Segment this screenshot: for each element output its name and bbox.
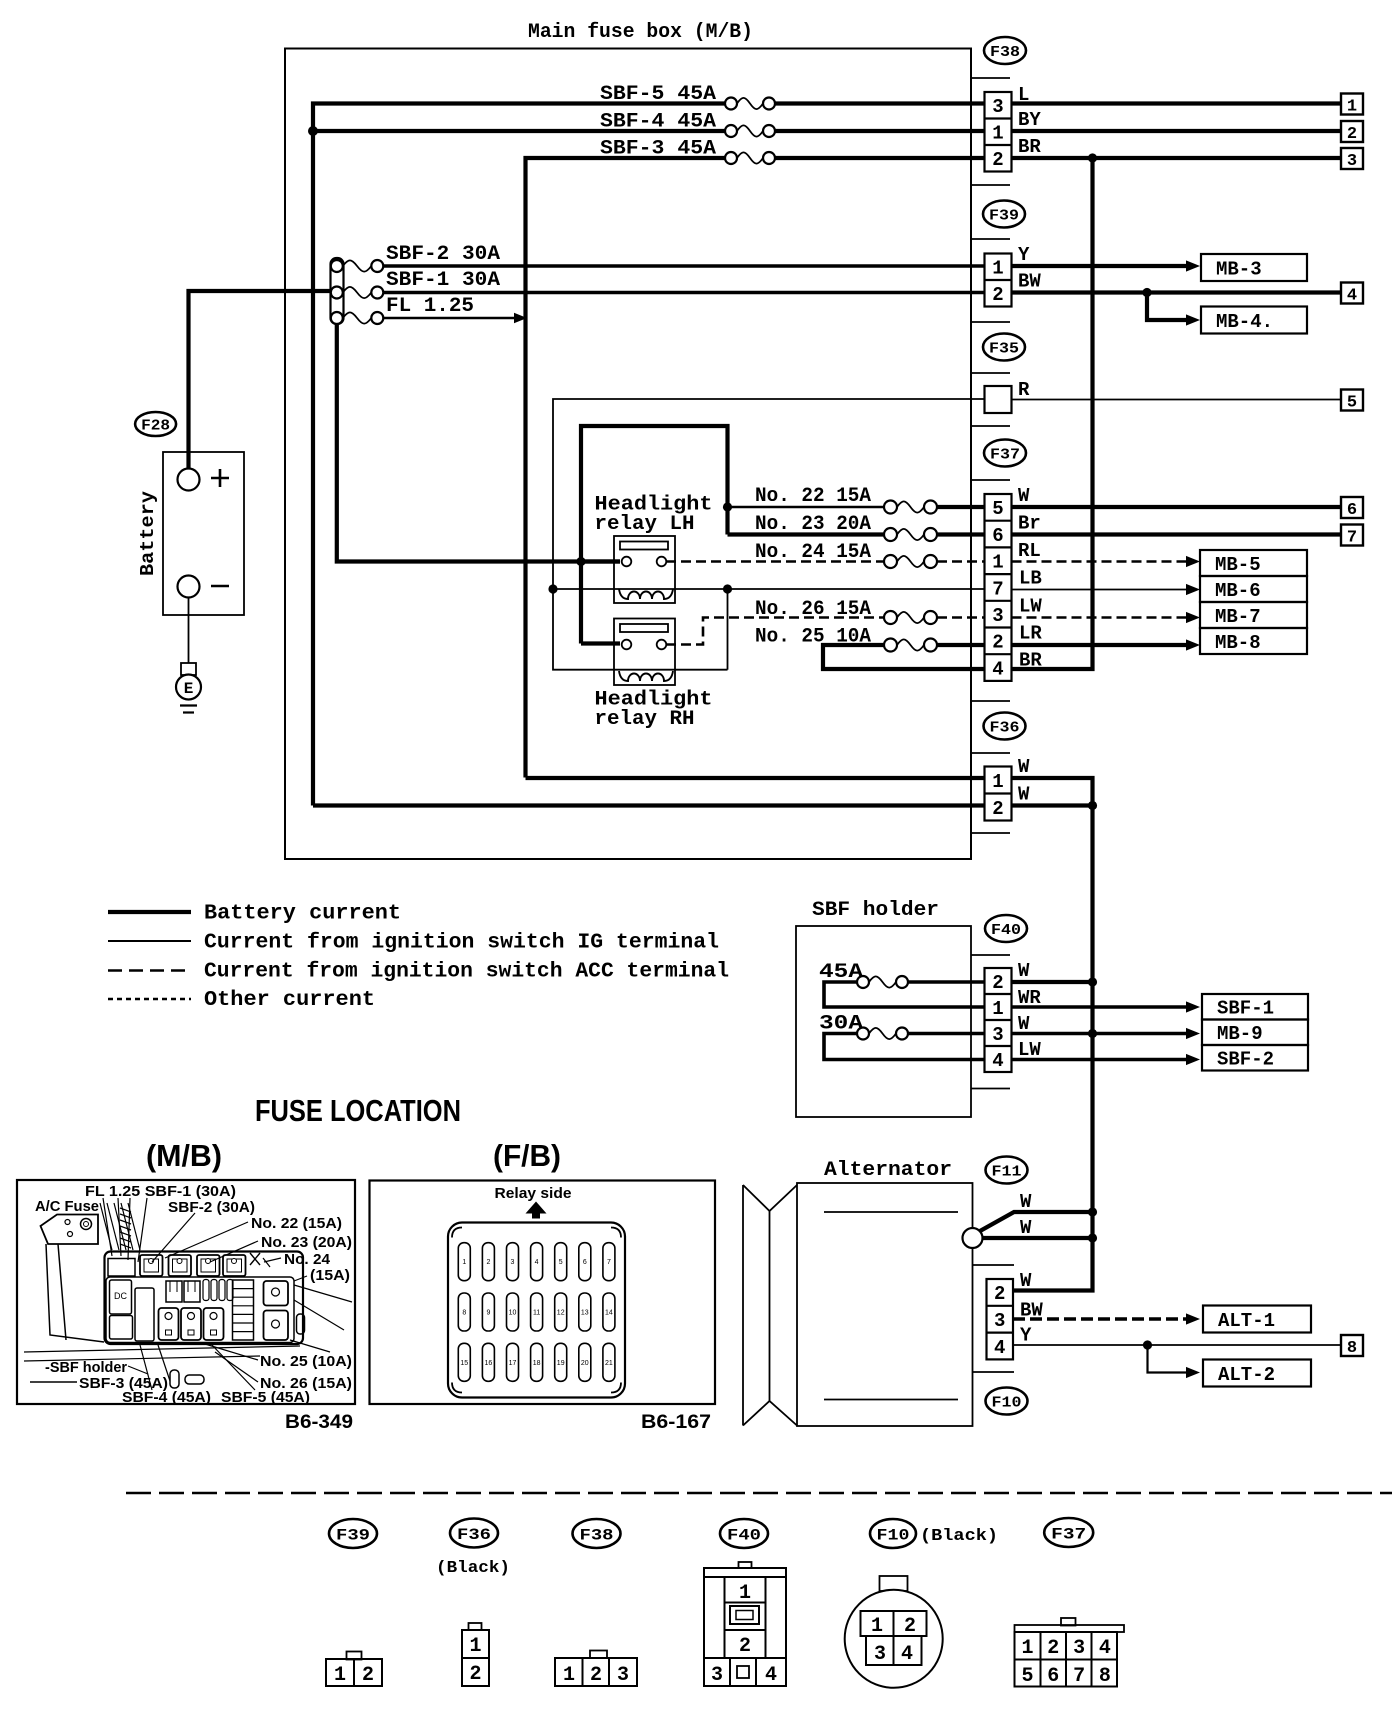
fuse No.23 xyxy=(897,529,924,540)
svg-text:4: 4 xyxy=(994,1337,1005,1359)
fuse FL 1.25 xyxy=(343,312,372,323)
svg-text:17: 17 xyxy=(509,1360,517,1367)
bottom F40 connector xyxy=(739,1562,752,1568)
svg-text:8: 8 xyxy=(1347,1339,1357,1358)
MB-3 box xyxy=(1201,254,1307,281)
connector F38 oval xyxy=(984,37,1026,64)
wire BW to terminal 4 xyxy=(1012,290,1342,294)
svg-text:2: 2 xyxy=(739,1635,751,1658)
wire W alternator second xyxy=(983,1236,1093,1240)
svg-text:F36: F36 xyxy=(457,1526,491,1544)
wire SBF-4 45A (battery) xyxy=(313,129,725,133)
svg-text:21: 21 xyxy=(605,1360,613,1367)
svg-text:SBF holder: SBF holder xyxy=(812,899,939,922)
relay LH coil xyxy=(619,589,673,599)
relay LH contacts xyxy=(622,557,632,567)
svg-text:2: 2 xyxy=(1047,1637,1059,1660)
svg-text:2: 2 xyxy=(904,1615,916,1638)
svg-text:MB-3: MB-3 xyxy=(1216,258,1262,280)
svg-text:Main fuse box (M/B): Main fuse box (M/B) xyxy=(528,21,753,44)
bottom F37 oval xyxy=(1044,1518,1093,1547)
svg-text:(Black): (Black) xyxy=(920,1527,998,1546)
wire relay feed U (battery) xyxy=(581,426,728,644)
bottom F10 oval xyxy=(870,1519,916,1548)
svg-text:1: 1 xyxy=(334,1664,346,1687)
svg-text:SBF-5 45A: SBF-5 45A xyxy=(600,83,716,106)
svg-text:3: 3 xyxy=(711,1664,723,1687)
svg-text:A/C Fuse: A/C Fuse xyxy=(35,1199,99,1215)
svg-text:SBF-4 (45A): SBF-4 (45A) xyxy=(122,1390,211,1406)
connector F39 oval xyxy=(983,201,1025,228)
connector F35 oval xyxy=(983,334,1025,361)
wire Br to terminal 7 xyxy=(1012,532,1342,536)
svg-text:BW: BW xyxy=(1018,271,1041,293)
svg-text:W: W xyxy=(1018,485,1030,507)
svg-text:F40: F40 xyxy=(727,1526,761,1544)
svg-text:(F/B): (F/B) xyxy=(493,1138,561,1173)
bottom F40 oval xyxy=(720,1519,768,1548)
svg-text:F10: F10 xyxy=(992,1394,1022,1411)
harness xyxy=(100,1203,112,1250)
svg-text:F37: F37 xyxy=(1051,1525,1086,1543)
svg-text:W: W xyxy=(1020,1217,1032,1239)
bottom F10 connector xyxy=(880,1576,908,1591)
connector F36 pin box pins 1,2 xyxy=(985,767,1012,821)
svg-text:16: 16 xyxy=(485,1360,493,1367)
svg-text:2: 2 xyxy=(992,149,1003,171)
A/C bracket xyxy=(41,1215,99,1245)
svg-text:No. 24: No. 24 xyxy=(284,1252,330,1268)
relay RH coil xyxy=(619,671,673,681)
svg-text:FL 1.25 SBF-1 (30A): FL 1.25 SBF-1 (30A) xyxy=(85,1184,236,1200)
terminal 4 xyxy=(1341,283,1363,304)
fuse No.26 xyxy=(897,612,924,623)
ground symbol xyxy=(180,704,197,706)
connector F35 pin box (R) xyxy=(985,386,1012,413)
svg-text:F35: F35 xyxy=(989,340,1019,357)
ALT-1 box xyxy=(1203,1306,1311,1333)
wire SBF-5 45A (battery) xyxy=(313,104,725,806)
wire W pin2 to vertical xyxy=(1012,980,1093,984)
svg-text:SBF-2: SBF-2 xyxy=(1217,1049,1274,1071)
svg-text:B6-349: B6-349 xyxy=(285,1412,353,1433)
svg-text:3: 3 xyxy=(1073,1637,1085,1660)
fuse No.25 xyxy=(897,639,924,650)
connector ticks on fuse box right edge xyxy=(971,77,1010,79)
svg-text:14: 14 xyxy=(605,1310,613,1317)
wire to relay LH contact xyxy=(581,559,620,563)
pointer lines xyxy=(103,1198,112,1256)
svg-text:MB-6: MB-6 xyxy=(1215,580,1261,602)
svg-text:SBF-4 45A: SBF-4 45A xyxy=(600,111,716,134)
svg-text:1: 1 xyxy=(469,1635,481,1658)
svg-text:SBF-2 30A: SBF-2 30A xyxy=(386,243,500,266)
terminal 7 xyxy=(1341,525,1363,546)
svg-text:No. 25 10A: No. 25 10A xyxy=(755,626,871,649)
terminal 3 xyxy=(1341,148,1363,169)
svg-text:2: 2 xyxy=(992,798,1003,820)
svg-text:7: 7 xyxy=(607,1259,611,1266)
svg-text:MB-7: MB-7 xyxy=(1215,606,1261,628)
svg-text:MB-9: MB-9 xyxy=(1217,1023,1263,1045)
svg-text:F40: F40 xyxy=(991,922,1021,939)
svg-text:LR: LR xyxy=(1019,623,1042,645)
svg-text:No. 22 (15A): No. 22 (15A) xyxy=(251,1216,342,1232)
wire BR to terminal 3 xyxy=(1012,156,1342,160)
bottom separator dashed line xyxy=(126,1492,1392,1495)
svg-text:1: 1 xyxy=(992,771,1003,793)
wire SBF-2 30A xyxy=(384,264,985,268)
svg-text:F39: F39 xyxy=(989,207,1019,224)
connector F40 pin box pins 2,1,3,4 xyxy=(985,968,1012,1072)
bottom F39 oval xyxy=(329,1519,377,1548)
svg-text:4: 4 xyxy=(992,1050,1003,1072)
svg-text:(15A): (15A) xyxy=(310,1268,350,1284)
wire R to terminal 5 xyxy=(1012,399,1342,401)
terminal 5 xyxy=(1341,390,1363,411)
svg-text:No. 23 20A: No. 23 20A xyxy=(755,513,871,536)
legend other current xyxy=(108,998,191,1001)
svg-text:Current from ignition switch A: Current from ignition switch ACC termina… xyxy=(204,961,729,984)
fuse No.22 xyxy=(897,501,924,512)
svg-text:1: 1 xyxy=(992,998,1003,1020)
terminal 2 xyxy=(1341,121,1363,142)
battery plus terminal xyxy=(178,469,200,491)
wire No.24 15A (ACC dashed) xyxy=(666,560,884,563)
svg-text:BR: BR xyxy=(1018,136,1041,158)
fuse SBF-2 30A xyxy=(343,260,372,271)
wire No.22 15A xyxy=(728,506,885,508)
svg-text:3: 3 xyxy=(992,605,1003,627)
svg-text:W: W xyxy=(1020,1191,1032,1213)
svg-text:Y: Y xyxy=(1020,1325,1032,1347)
svg-text:1: 1 xyxy=(563,1664,575,1687)
SBF fuse block bar xyxy=(331,258,344,324)
svg-text:LW: LW xyxy=(1019,596,1042,618)
svg-text:W: W xyxy=(1020,1270,1032,1292)
headlight relay RH box xyxy=(614,619,675,686)
connector F37 oval xyxy=(984,440,1026,467)
svg-text:F28: F28 xyxy=(141,417,170,434)
svg-text:2: 2 xyxy=(1347,125,1357,144)
wire LR to MB-8 xyxy=(1012,643,1187,647)
terminal 6 xyxy=(1341,497,1363,518)
svg-text:(Black): (Black) xyxy=(436,1559,510,1578)
legend battery current xyxy=(108,910,191,914)
fuse SBF-4 45A xyxy=(737,125,763,136)
svg-text:2: 2 xyxy=(992,972,1003,994)
SBF-1 MB-9 SBF-2 boxes xyxy=(1202,994,1308,1020)
svg-text:3: 3 xyxy=(874,1643,886,1666)
svg-text:SBF-2 (30A): SBF-2 (30A) xyxy=(168,1200,255,1216)
ALT-2 box xyxy=(1203,1360,1311,1387)
bottom F36 connector xyxy=(469,1623,482,1630)
svg-text:1: 1 xyxy=(992,123,1003,145)
svg-text:W: W xyxy=(1018,756,1030,778)
svg-text:1: 1 xyxy=(1347,98,1357,117)
ticks F11/F10 xyxy=(973,1264,1015,1266)
bottom F37 connector xyxy=(1061,1618,1076,1626)
svg-text:No. 25 (10A): No. 25 (10A) xyxy=(260,1354,352,1370)
terminal 8 xyxy=(1341,1335,1363,1356)
svg-text:18: 18 xyxy=(533,1360,541,1367)
wire No.26 15A (ACC dashed) xyxy=(666,618,884,645)
wire FL 1.25 xyxy=(384,317,516,320)
M/B fusebox body xyxy=(105,1252,304,1345)
svg-text:1: 1 xyxy=(992,258,1003,280)
svg-text:(M/B): (M/B) xyxy=(146,1138,222,1173)
svg-text:2: 2 xyxy=(992,284,1003,306)
wire BW to ALT-1 (dashed) xyxy=(1013,1317,1186,1320)
svg-text:13: 13 xyxy=(581,1310,589,1317)
svg-text:2: 2 xyxy=(994,1283,1005,1305)
svg-text:2: 2 xyxy=(992,632,1003,654)
svg-text:3: 3 xyxy=(511,1259,515,1266)
svg-text:relay LH: relay LH xyxy=(595,513,695,536)
alternator output terminal xyxy=(963,1228,983,1248)
F/B fuses xyxy=(458,1243,470,1281)
svg-text:6: 6 xyxy=(1047,1665,1059,1688)
fuse No.24 xyxy=(897,556,924,567)
bottom F38 connector xyxy=(590,1651,607,1659)
svg-text:2: 2 xyxy=(469,1663,481,1686)
svg-text:SBF-1: SBF-1 xyxy=(1217,998,1274,1020)
battery minus terminal xyxy=(178,576,200,598)
wire WR to SBF-1 xyxy=(1012,1005,1186,1009)
wire battery feed from battery plus xyxy=(189,291,331,469)
svg-text:4: 4 xyxy=(1099,1637,1111,1660)
svg-text:No. 22 15A: No. 22 15A xyxy=(755,485,871,508)
svg-text:10: 10 xyxy=(509,1310,517,1317)
MB-5 MB-6 MB-7 MB-8 boxes xyxy=(1200,550,1307,576)
fuse SBF-3 45A xyxy=(737,152,763,163)
main fuse box outline xyxy=(285,49,971,860)
svg-text:-SBF holder: -SBF holder xyxy=(45,1360,127,1376)
connector F39 pin box pins 1,2 xyxy=(985,254,1012,307)
wire No.25 10A xyxy=(823,645,985,669)
svg-text:L: L xyxy=(1018,84,1029,106)
fuse SBF-5 45A xyxy=(737,98,763,109)
svg-text:1: 1 xyxy=(1021,1637,1033,1660)
svg-text:5: 5 xyxy=(1347,394,1357,413)
wire SBF-1 30A xyxy=(384,291,985,295)
junction W xyxy=(1088,801,1097,810)
svg-text:1: 1 xyxy=(992,552,1003,574)
svg-text:6: 6 xyxy=(1347,501,1357,520)
svg-text:5: 5 xyxy=(1021,1665,1033,1688)
alternator pin box pins 2,3,4 xyxy=(987,1279,1014,1359)
terminal 1 xyxy=(1341,94,1363,115)
svg-text:4: 4 xyxy=(901,1643,913,1666)
svg-text:LB: LB xyxy=(1019,568,1042,590)
svg-text:F36: F36 xyxy=(990,719,1020,736)
wire L to terminal 1 xyxy=(1012,101,1342,105)
wire battery minus to ground xyxy=(188,598,190,664)
svg-text:BR: BR xyxy=(1019,650,1042,672)
svg-text:R: R xyxy=(1018,379,1030,401)
wire relay coil return (LB) xyxy=(553,588,985,590)
svg-text:W: W xyxy=(1018,960,1030,982)
svg-text:15: 15 xyxy=(460,1360,468,1367)
svg-text:3: 3 xyxy=(1347,152,1357,171)
svg-text:F10: F10 xyxy=(877,1526,910,1544)
svg-text:SBF-1 30A: SBF-1 30A xyxy=(386,269,500,292)
wire to relay RH contact xyxy=(581,641,620,645)
svg-text:SBF-5 (45A): SBF-5 (45A) xyxy=(221,1390,310,1406)
bottom F38 oval xyxy=(573,1519,621,1548)
M/B location box xyxy=(17,1180,355,1404)
connector F36 oval xyxy=(984,713,1026,740)
wire LB to MB-6 xyxy=(1012,589,1187,591)
connector F40 oval xyxy=(985,915,1027,942)
svg-text:3: 3 xyxy=(994,1310,1005,1332)
wire Y to terminal 8 xyxy=(1013,1344,1341,1346)
relay RH contacts xyxy=(622,640,632,650)
svg-text:7: 7 xyxy=(992,578,1003,600)
svg-text:F38: F38 xyxy=(990,44,1020,61)
svg-text:8: 8 xyxy=(462,1310,466,1317)
wire R to relay coils xyxy=(553,399,985,670)
svg-text:7: 7 xyxy=(1347,529,1357,548)
svg-text:F11: F11 xyxy=(992,1163,1022,1180)
alternator body xyxy=(797,1183,973,1426)
svg-text:11: 11 xyxy=(533,1310,540,1317)
svg-text:SBF-3 45A: SBF-3 45A xyxy=(600,138,716,161)
svg-text:Current from ignition switch I: Current from ignition switch IG terminal xyxy=(204,932,719,955)
relay side arrow xyxy=(526,1202,547,1219)
svg-text:4: 4 xyxy=(765,1664,777,1687)
svg-text:Br: Br xyxy=(1018,513,1041,535)
F/B inner fuse panel xyxy=(448,1223,625,1398)
svg-text:3: 3 xyxy=(992,96,1003,118)
svg-text:3: 3 xyxy=(617,1664,629,1687)
wire W pin2 from battery vertical xyxy=(313,803,985,807)
junction BW branch xyxy=(1142,288,1151,297)
svg-text:RL: RL xyxy=(1018,540,1041,562)
F28 oval xyxy=(135,412,176,436)
svg-text:Other current: Other current xyxy=(204,989,375,1012)
fuse SBF-1 30A xyxy=(343,287,372,298)
svg-text:Y: Y xyxy=(1018,244,1030,266)
wire RL to MB-5 (dashed) xyxy=(1012,560,1187,563)
svg-text:No. 23 (20A): No. 23 (20A) xyxy=(261,1235,352,1251)
wire W pin1 from SBF-3 line xyxy=(526,776,985,780)
svg-text:6: 6 xyxy=(992,525,1003,547)
wire W main vertical to alternator xyxy=(1013,806,1093,1291)
wire No.23 20A xyxy=(728,532,885,536)
svg-text:MB-4.: MB-4. xyxy=(1216,311,1273,333)
svg-text:B6-167: B6-167 xyxy=(641,1412,711,1433)
svg-text:Battery: Battery xyxy=(137,490,159,576)
connector F10 oval xyxy=(986,1388,1028,1415)
svg-text:DC: DC xyxy=(114,1291,127,1301)
svg-text:3: 3 xyxy=(992,1024,1003,1046)
ticks F40 xyxy=(971,954,1010,956)
wire W to terminal 6 xyxy=(1012,505,1342,509)
svg-text:4: 4 xyxy=(992,658,1003,680)
svg-text:ALT-2: ALT-2 xyxy=(1218,1364,1275,1386)
wire W alternator top xyxy=(980,1212,1093,1231)
svg-text:5: 5 xyxy=(992,498,1003,520)
svg-text:Alternator: Alternator xyxy=(824,1159,952,1182)
svg-text:F37: F37 xyxy=(990,446,1020,463)
wire W pin1 right loop xyxy=(1012,778,1093,806)
svg-text:6: 6 xyxy=(583,1259,587,1266)
svg-text:FL 1.25: FL 1.25 xyxy=(386,295,474,318)
svg-text:Relay side: Relay side xyxy=(495,1186,572,1202)
connector F11 oval xyxy=(986,1157,1028,1184)
svg-text:1: 1 xyxy=(462,1259,466,1266)
wire branch to MB-4 xyxy=(1147,293,1186,321)
wire BY to terminal 2 xyxy=(1012,129,1342,133)
ground terminal E xyxy=(181,663,196,675)
wire Y to MB-3 xyxy=(1012,264,1187,268)
svg-text:8: 8 xyxy=(1099,1665,1111,1688)
svg-text:BY: BY xyxy=(1018,109,1041,131)
svg-text:4: 4 xyxy=(535,1259,539,1266)
bottom F39 connector xyxy=(347,1652,362,1660)
svg-text:4: 4 xyxy=(1347,287,1357,306)
legend IG current xyxy=(108,940,191,942)
wire SBF-3 45A (battery) xyxy=(526,158,726,778)
svg-text:ALT-1: ALT-1 xyxy=(1218,1310,1275,1332)
svg-text:FUSE LOCATION: FUSE LOCATION xyxy=(255,1093,461,1128)
svg-text:12: 12 xyxy=(557,1310,565,1317)
F/B location box xyxy=(370,1181,716,1405)
wire BR vertical to F37 pin 4 xyxy=(1012,158,1093,669)
svg-text:20: 20 xyxy=(581,1360,589,1367)
junction relay feed xyxy=(576,557,585,566)
wire LW to SBF-2 xyxy=(1012,1058,1186,1062)
battery label xyxy=(137,490,159,576)
svg-text:No. 24 15A: No. 24 15A xyxy=(755,541,871,564)
wire LW to MB-7 (dashed) xyxy=(1012,616,1187,619)
svg-text:relay RH: relay RH xyxy=(595,708,695,731)
svg-text:2: 2 xyxy=(486,1259,490,1266)
svg-text:F38: F38 xyxy=(580,1526,614,1544)
wire fuse block to relay feed xyxy=(337,324,620,562)
svg-text:W: W xyxy=(1018,784,1030,806)
svg-text:MB-8: MB-8 xyxy=(1215,632,1261,654)
junction Y branch xyxy=(1143,1340,1152,1349)
junction BR branch xyxy=(1088,153,1097,162)
bottom F36 oval xyxy=(450,1519,498,1548)
svg-text:9: 9 xyxy=(486,1310,490,1317)
alternator pulley xyxy=(743,1185,797,1211)
svg-text:E: E xyxy=(184,680,194,698)
svg-text:7: 7 xyxy=(1073,1665,1085,1688)
MB-4 box xyxy=(1201,307,1307,334)
wire RH coil riser xyxy=(727,589,729,670)
wire W pin2 right xyxy=(1012,803,1093,807)
battery box xyxy=(163,452,244,615)
connector F37 pin box pins 5,6,1,7,3,2,4 xyxy=(985,494,1012,681)
connector F38 pin box pins 3,1,2 xyxy=(985,92,1012,172)
svg-text:2: 2 xyxy=(590,1664,602,1687)
M/B top fuse row xyxy=(108,1259,135,1277)
svg-text:MB-5: MB-5 xyxy=(1215,554,1261,576)
svg-text:19: 19 xyxy=(557,1360,565,1367)
svg-text:No. 26 15A: No. 26 15A xyxy=(755,598,871,621)
wire W to MB-9 xyxy=(1012,1032,1186,1036)
svg-text:5: 5 xyxy=(559,1259,563,1266)
svg-text:Battery current: Battery current xyxy=(204,903,401,926)
svg-text:F39: F39 xyxy=(336,1526,370,1544)
svg-text:2: 2 xyxy=(362,1664,374,1687)
SBF holder box xyxy=(796,926,971,1117)
legend ACC current xyxy=(108,969,191,972)
headlight relay LH box xyxy=(614,536,675,603)
